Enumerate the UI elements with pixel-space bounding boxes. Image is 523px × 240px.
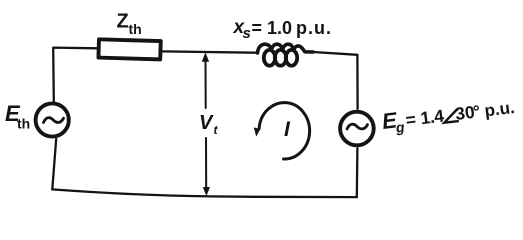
svg-text:V: V (199, 112, 214, 134)
svg-text:s: s (243, 25, 251, 42)
svg-text:Z: Z (117, 11, 129, 33)
svg-text:th: th (17, 116, 30, 132)
svg-text:p.u.: p.u. (483, 98, 515, 121)
svg-text:= 1.0: = 1.0 (252, 18, 293, 38)
svg-text:p.u.: p.u. (296, 18, 332, 38)
svg-text:1.4: 1.4 (419, 106, 445, 129)
svg-text:th: th (129, 21, 142, 37)
